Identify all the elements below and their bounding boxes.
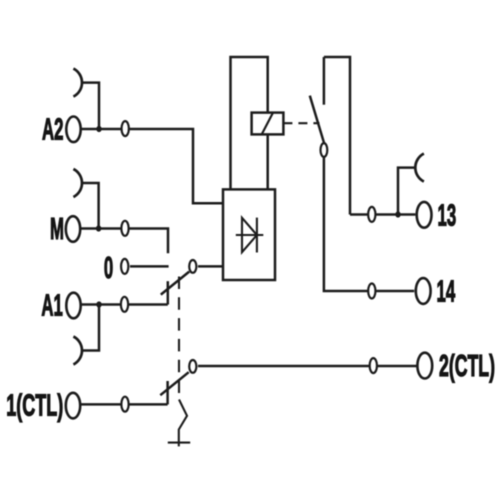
wire 2(CTL) row — [198, 365, 417, 368]
bridge contact M — [73, 169, 82, 197]
test point 1(CTL) row — [121, 397, 128, 412]
wire A2 row — [81, 129, 223, 203]
wire S1 pivot to rectifier — [198, 265, 223, 268]
svg-text:14: 14 — [437, 275, 456, 308]
wire 13 row — [350, 213, 415, 216]
label 1(CTL) — [6, 389, 63, 423]
wire A1 contact stub — [167, 281, 170, 304]
test point A1 row — [121, 297, 128, 312]
wire 1(CTL) contact stub — [166, 381, 169, 404]
label 14 — [437, 275, 456, 308]
relay coil K1 — [252, 113, 284, 135]
relay contact pivot — [321, 143, 328, 157]
rectifier cross line — [236, 234, 263, 236]
wire M bridge stub — [82, 183, 99, 229]
manual actuator spring — [179, 400, 187, 447]
test point A2 row — [122, 121, 129, 136]
junction M — [96, 225, 101, 231]
svg-text:A2: A2 — [42, 113, 63, 146]
wire A1 row — [81, 303, 168, 306]
terminal 1(CTL) — [66, 393, 80, 419]
terminal M — [66, 216, 80, 242]
terminal 13 — [417, 202, 432, 228]
selector switch S1 pivot — [189, 260, 196, 273]
svg-text:M: M — [50, 213, 64, 246]
junction A2 — [96, 126, 101, 132]
svg-text:2(CTL): 2(CTL) — [439, 349, 495, 383]
terminal A2 — [66, 117, 80, 143]
test point 14 row — [368, 284, 375, 299]
test point 0 row — [121, 259, 128, 274]
rectifier U1 box — [223, 189, 275, 280]
svg-text:1(CTL): 1(CTL) — [6, 389, 63, 423]
bridge contact A2 — [73, 69, 82, 97]
terminal 14 — [416, 278, 431, 304]
junction 13 — [395, 211, 400, 217]
coil to contact dashed link — [283, 122, 319, 124]
rectifier cathode bar — [256, 218, 258, 253]
mechanical coupling dashed link — [178, 277, 180, 400]
wire A1 bridge stub — [82, 305, 99, 351]
relay coil diagonal — [262, 113, 273, 135]
label 13 — [438, 199, 457, 232]
test point M row — [121, 221, 128, 236]
svg-text:A1: A1 — [41, 289, 62, 322]
wire 0 row — [130, 265, 169, 268]
wire 14 row — [324, 157, 414, 291]
label M — [50, 213, 64, 246]
bridge contact A1 — [73, 337, 82, 365]
relay frame K1 — [231, 57, 268, 189]
selector switch S1 blade — [161, 272, 189, 295]
control switch S2 pivot — [189, 360, 196, 373]
test point 13 row — [368, 207, 375, 222]
label A1 — [41, 289, 62, 322]
label 0 — [104, 252, 113, 285]
control switch S2 blade — [160, 372, 188, 395]
label A2 — [42, 113, 63, 146]
wire 1(CTL) row — [80, 403, 167, 406]
wire 13 bridge stub — [398, 168, 415, 215]
wire top bus — [324, 57, 350, 215]
svg-text:0: 0 — [104, 252, 113, 285]
terminal 2(CTL) — [417, 353, 432, 379]
rectifier diode triangle — [242, 218, 257, 252]
label 2(CTL) — [439, 349, 495, 383]
manual actuator bar — [168, 442, 190, 444]
svg-text:13: 13 — [438, 199, 457, 232]
relay contact fixed terminal — [323, 57, 326, 105]
relay contact blade — [310, 96, 324, 143]
junction A1 — [96, 301, 101, 307]
test point 2(CTL) row — [370, 358, 377, 373]
bridge contact 13 — [415, 154, 424, 182]
wire A2 bridge stub — [82, 83, 99, 129]
terminal A1 — [66, 293, 80, 319]
wire M row — [80, 229, 168, 254]
